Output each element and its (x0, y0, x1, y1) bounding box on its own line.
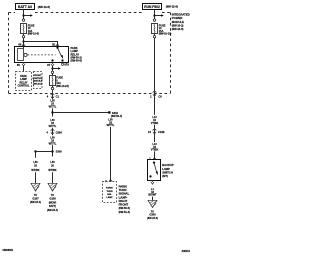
connector C1 at IPM boundary (47, 94, 60, 99)
wire RUN feed vertical into fuse F10 (154, 10, 156, 19)
junction dot on RUN feed (153, 14, 155, 16)
label BACKUP LAMP SWITCH (MT) (162, 163, 174, 178)
diagram id bottom right (182, 250, 191, 253)
integrated power module dashed boundary box (9, 13, 171, 94)
svg-text:(8W-10-8): (8W-10-8) (38, 5, 50, 9)
fuse F15 (IPM) (21, 24, 27, 34)
svg-text:WT/TL: WT/TL (49, 106, 57, 109)
svg-text:L50: L50 (33, 161, 38, 164)
module U2 FRONT CONTROL MODULE box (33, 72, 44, 89)
svg-text:WT/TL: WT/TL (107, 124, 115, 127)
svg-text:(8W-10-10): (8W-10-10) (159, 33, 172, 36)
svg-text:LAMP: LAMP (162, 167, 170, 171)
relay contact dot pin 87 (51, 59, 53, 61)
svg-text:FRONT: FRONT (34, 75, 42, 77)
wire BATT feed vertical into fuse F15 (23, 10, 25, 19)
splice S306 junction dots and tie line (51, 150, 53, 152)
svg-text:SWITCH: SWITCH (162, 170, 173, 174)
pin 86 (18, 43, 21, 47)
relay coil (18, 47, 28, 61)
svg-text:C10B: C10B (158, 130, 165, 134)
svg-text:0596805J: 0596805J (3, 249, 14, 252)
connector C6 at IPM boundary (150, 91, 162, 98)
ground G107 (31, 183, 40, 191)
pin 87 exit below relay (47, 63, 50, 67)
connector C10B (148, 129, 165, 134)
svg-text:(8W-15-4): (8W-15-4) (47, 209, 58, 212)
wire to ground G108 (52, 172, 54, 183)
svg-text:BATT): BATT) (49, 205, 56, 208)
svg-text:(8W-50-8): (8W-50-8) (71, 60, 82, 63)
connector below fuse F15 (22, 36, 24, 38)
svg-text:S306: S306 (56, 150, 63, 154)
svg-text:C206: C206 (56, 130, 63, 134)
svg-text:(8W-45-6): (8W-45-6) (33, 82, 42, 85)
pin 87A stub (61, 63, 63, 65)
svg-text:VT/BK: VT/BK (151, 149, 159, 152)
wire label L50 18 WT/TL (below S310 junction) (49, 119, 57, 128)
svg-text:87A: 87A (64, 63, 69, 67)
ground G300 (148, 200, 157, 207)
wire label L50 18 WT/TL (49, 100, 57, 109)
relay K1 park lamp relay box (15, 47, 69, 63)
wire label L50 18 WT/BK (left ground drop) (31, 161, 39, 172)
svg-text:BATT A0: BATT A0 (18, 5, 32, 9)
relay contact dot pin 87A (61, 59, 63, 61)
svg-text:WT/BK: WT/BK (48, 169, 56, 172)
connector below fuse F8 (51, 87, 53, 89)
connector on BATT feed above fuse (22, 19, 24, 21)
svg-text:BACKUP: BACKUP (162, 163, 174, 167)
svg-text:(8W-10-6): (8W-10-6) (28, 33, 39, 36)
fuse F10 (IPM) (152, 24, 158, 34)
svg-text:(8W-12-8): (8W-12-8) (166, 5, 178, 9)
svg-text:(MT): (MT) (162, 174, 168, 178)
wire fuse F10 down to C6 (154, 34, 156, 115)
svg-text:G107: G107 (32, 197, 39, 201)
svg-text:(8W-51-3): (8W-51-3) (119, 211, 130, 214)
svg-text:FRONT: FRONT (119, 203, 129, 207)
label FUSE 8 10A (8W-10-24) (56, 77, 69, 88)
svg-text:MODULE: MODULE (172, 20, 184, 24)
connector below fuse F10 (153, 36, 155, 38)
label FUSE 15 10A (8W-10-6) (28, 24, 39, 35)
svg-text:TURN: TURN (106, 191, 112, 193)
pin 85 (23, 63, 25, 64)
switch blade (153, 162, 155, 164)
relay control dashed line (28, 54, 56, 56)
svg-text:(NEAR: (NEAR (49, 201, 57, 204)
svg-text:L50: L50 (50, 161, 55, 164)
svg-text:G108: G108 (49, 197, 56, 201)
svg-text:PARK/: PARK/ (106, 187, 113, 190)
node BATT A0 feed box (16, 4, 35, 10)
pin B1 (52, 43, 56, 47)
wire tap arrow right from BATT feed (24, 15, 31, 17)
svg-text:(8W-10-24): (8W-10-24) (56, 85, 69, 88)
junction dot on pin 87 wire (51, 67, 53, 69)
svg-text:(8W-15-6): (8W-15-6) (147, 217, 158, 220)
junction dot B+ branch (22, 40, 24, 42)
relay switch blade (56, 47, 58, 49)
FCM function box PARK LAMP RELAY CONTROL (16, 72, 32, 91)
label PARK LAMP RELAY (71, 46, 82, 63)
pin 1 of backup lamp switch (149, 157, 151, 161)
wire to ground G107 (35, 172, 37, 183)
wire tap arrow right from pin 87 wire (53, 68, 59, 70)
ground G108 (48, 183, 57, 191)
svg-text:A98214: A98214 (182, 250, 191, 253)
svg-text:(8W-15-4): (8W-15-4) (30, 201, 41, 204)
wire splice line to S310 (53, 112, 109, 114)
svg-text:WT/BK: WT/BK (31, 169, 39, 172)
svg-text:C1: C1 (56, 94, 60, 98)
pin 4 exit of backup lamp switch (152, 181, 154, 182)
junction dot at S310 line (51, 111, 53, 113)
wire to splice S306 (52, 145, 54, 156)
label FUSE 10 15A (8W-10-10) (159, 24, 172, 35)
switch S1 backup lamp switch box (148, 160, 161, 181)
svg-text:SIG-: SIG- (107, 194, 112, 196)
svg-text:VT/BK: VT/BK (151, 122, 159, 125)
svg-text:MODULE: MODULE (33, 81, 43, 83)
switch contact dot (149, 175, 151, 177)
connector C206 (46, 130, 62, 135)
lamp DS1 park/turn signal lamp right front dashed box (103, 182, 117, 203)
connector above fuse F8 (51, 71, 53, 73)
svg-text:RUN F902: RUN F902 (144, 5, 160, 9)
wire to backup lamp switch pin 1 (154, 151, 156, 159)
svg-text:(8W-10-6): (8W-10-6) (172, 27, 184, 31)
label PARK/TURN SIGNAL LAMP RIGHT FRONT (119, 184, 130, 214)
label INTEGRATED POWER MODULE (172, 12, 190, 31)
diagram id bottom left (3, 249, 14, 252)
wire tap arrow right from RUN feed (155, 15, 162, 17)
wire label L50 18 WT/TL (below C206) (49, 137, 57, 146)
wire C1 to splice S310 (52, 108, 54, 116)
splice S310 (108, 111, 110, 113)
wire label L13 18 VT/BK (below C10B) (151, 143, 159, 152)
wire to connector C10B (154, 125, 156, 142)
wire S306 left branch down (35, 152, 37, 158)
svg-text:BK/WT: BK/WT (148, 194, 157, 197)
svg-text:(8W-10-2): (8W-10-2) (172, 24, 184, 28)
wire to connector C206 (52, 128, 54, 136)
pin 2 of lamp (105, 179, 107, 183)
junction dot on BATT feed (22, 14, 24, 16)
wire label L50 18 WT/TL (lamp drop) (107, 118, 115, 127)
svg-text:WT/TL: WT/TL (49, 125, 57, 128)
wire to ground G300 (152, 197, 154, 201)
wire S310 to park/turn lamp (110, 127, 112, 182)
fuse F8 (IPM) (50, 76, 56, 86)
svg-text:LAMP: LAMP (106, 196, 113, 199)
wire relay pin 87 down to fuse F8 (52, 66, 54, 75)
wire label L50 20 WT/BK (right ground drop) (48, 161, 56, 172)
svg-text:CONTROL: CONTROL (18, 85, 30, 88)
wire branch to relay pin B1 (24, 42, 58, 47)
svg-text:CONTROL: CONTROL (33, 78, 44, 80)
wire label L13 18 VT/BK (above C10B) (151, 116, 159, 125)
svg-text:C6: C6 (158, 94, 162, 98)
svg-text:(8W-50-6): (8W-50-6) (119, 207, 130, 210)
node RUN F902 feed box (143, 4, 162, 10)
wire label L1 18 BK/WT (148, 188, 157, 197)
connector on RUN feed above fuse (153, 19, 155, 21)
wire relay pin 85 to FCM (23, 66, 25, 71)
svg-text:B1: B1 (52, 43, 56, 47)
wire fuse F8 to connector C1 (52, 86, 54, 100)
svg-text:WT/TL: WT/TL (49, 142, 57, 145)
wire fuse F15 to relay pin 86 (23, 34, 25, 47)
